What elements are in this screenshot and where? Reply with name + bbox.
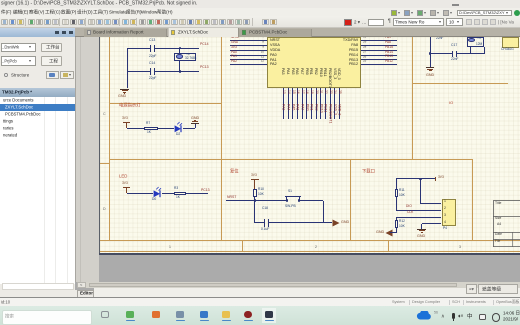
net label PB2/BOOT1 [328,104,332,123]
pin 29 [363,41,366,44]
section label LED [119,174,127,178]
pin name PB10 [319,68,323,77]
wire [361,54,397,57]
pin 8 [256,41,264,44]
pin 13 [282,90,285,94]
wire [287,88,290,119]
pin 27 [363,51,366,54]
net label PA4 [287,104,291,110]
ground [120,89,129,90]
ground [384,229,393,238]
pin 14 [287,90,290,94]
net label VDD_3 [338,104,342,115]
ground [426,67,435,68]
wire [396,177,435,180]
pin 18 [305,90,308,94]
net label PA9 [385,36,391,39]
net label PB1 [310,104,314,111]
pin name PB11 [324,68,328,77]
net label PA7 [301,104,305,110]
wire [361,58,397,61]
wire [230,58,268,61]
wire [127,47,150,50]
pin name PA2 [270,62,277,66]
section label 电源指示灯 [119,103,140,107]
wire [291,88,294,119]
pin 10 [256,51,264,54]
pin name VDDA [270,48,280,52]
pin 16 [296,90,299,94]
ic U3 CH340G [502,37,519,48]
section lines [221,37,222,241]
resistor R10 [253,189,257,197]
wire [324,88,327,119]
wire [471,52,485,55]
pin name PA6 [296,68,300,75]
wire [457,52,471,55]
net label DIO [406,205,412,208]
pin name PA7 [300,68,304,75]
wire [127,192,154,195]
wire [419,179,422,204]
pin 19 [310,90,313,94]
wire [305,88,308,119]
pin name PA8 [318,43,358,47]
pin 22 [324,90,327,94]
pin name PA3 [282,68,286,75]
net label 3V3 [231,46,237,49]
border frame [109,37,110,241]
wire [396,209,441,212]
wire [186,192,208,195]
wire [319,88,322,119]
wire [469,47,472,53]
wire [395,217,398,220]
power 3V3 [434,177,437,182]
pin 26 [363,56,366,59]
wire [395,197,398,210]
pin name PB1 [310,68,314,75]
wire [420,202,441,205]
crystal Y2 [174,53,196,61]
node [429,52,432,55]
wire [338,88,341,119]
zone C [103,112,106,116]
wire [253,201,256,223]
pin name VSS_3 [333,68,337,79]
wire [430,52,452,55]
wire [361,63,397,66]
pin name VSSA [270,43,280,47]
wire [155,47,199,50]
pin 17 [301,90,304,94]
switch S1 [288,190,292,193]
wire [429,37,432,67]
net label PA1 [231,55,237,58]
net label NRST [227,196,236,199]
wire [178,61,181,71]
canvas below sheet [99,255,520,283]
crystal Y3 [467,37,485,47]
net label NRST [231,36,240,39]
net label PC14 [200,43,209,46]
wire [226,199,287,202]
wire [333,88,336,119]
resistor R3 [174,187,178,190]
net label PB13 [385,55,393,58]
wire [315,88,318,119]
capacitor C17 [451,44,457,47]
net label PB11 [324,104,328,112]
pin 11 [256,56,264,59]
pin name PB15 [318,48,358,52]
wire [322,201,325,223]
node [419,178,422,181]
zone 3 [459,246,461,249]
resistor R7 [146,122,150,125]
wire [127,70,150,73]
sheet left edge [99,37,100,255]
node [179,70,182,73]
net label PB14 [385,51,393,54]
pin name PB2 [314,68,318,75]
pin name PA4 [286,68,290,75]
wire [178,48,181,53]
net label PB12 [385,60,393,63]
pin name TXD/PA9 [318,38,358,42]
pin name PB12 [318,62,358,66]
wire [361,44,397,47]
net label PB15 [385,46,393,49]
wire [269,221,324,224]
net label PA6 [296,104,300,110]
wire [395,179,398,189]
ground [417,229,426,230]
wire [361,39,397,42]
wire [361,49,397,52]
zone D [103,207,106,211]
wire [299,199,323,202]
net label PA3 [282,104,286,110]
led D2 [174,121,185,133]
resistor R11 [395,189,399,197]
net label PA2 [231,60,237,63]
pin name PA1 [270,58,277,62]
pin name PA0 [270,53,277,57]
wire [255,221,265,224]
connector P4 [442,199,456,226]
sheet bottom edge [99,253,520,255]
net label VSS_3 [333,104,337,115]
net label PA8 [385,41,391,44]
wire [301,88,304,119]
wire [162,192,174,195]
wire [230,44,268,47]
zone 2 [315,246,317,249]
pin name NRST [270,38,280,42]
wire [395,228,398,233]
wire [310,88,313,119]
pin 15 [291,90,294,94]
net label GND [231,41,238,44]
ground [194,123,197,128]
pin 20 [314,90,317,94]
net label PC13 [200,66,209,69]
capacitor C18 [262,207,268,210]
wire [230,49,268,52]
wire [483,47,486,53]
wire [230,63,268,66]
capacitor C13 [149,39,155,42]
node [179,47,182,50]
power 3V3 [251,174,257,177]
pin 7 [256,36,264,39]
pin 25 [363,60,366,63]
wire [183,127,195,130]
wire [282,88,285,119]
pin 23 [328,90,331,94]
net label PA0 [231,51,237,54]
power 3V3 [122,182,128,185]
mcu U2 [267,37,361,88]
wire [420,224,423,229]
net label CLK [407,211,413,214]
resistor R12 [395,220,399,228]
pin name PB14 [318,53,358,57]
pin 21 [319,90,322,94]
pin 25 [338,90,341,94]
net label PA5 [291,104,295,110]
power 3V3 [122,117,128,120]
title block [493,200,520,247]
pin 30 [363,36,366,39]
zone 1 [169,246,171,249]
wire [296,88,299,119]
pin name PB0 [305,68,309,75]
section label 复位 [230,169,239,173]
pin name VDD_3 [338,68,342,80]
led D0 [153,186,164,198]
net label PB0 [305,104,309,111]
pin name PB2/BOOT1 [328,68,332,88]
wire [155,70,199,73]
pin 24 [333,90,336,94]
wire [127,127,145,130]
wire [253,197,256,200]
wire [126,48,129,88]
section label 下载口 [362,169,375,173]
pin 12 [256,60,264,63]
net label PB10 [319,104,323,113]
wire [396,216,441,219]
pin 28 [363,46,366,49]
wire [324,221,332,224]
wire [230,39,268,42]
wire [230,54,268,57]
ground [332,219,341,228]
node [254,199,257,202]
net label PC13 [201,189,210,192]
wire [422,222,442,225]
section label IO [449,101,453,105]
capacitor C16 [436,37,443,40]
pin name PB13 [318,58,358,62]
net label PB2 [314,104,318,111]
wire [158,127,174,130]
sheet paper [100,37,520,253]
pin name PA5 [291,68,295,75]
capacitor C14 [149,62,155,65]
wire [329,88,332,119]
pin 9 [256,46,264,49]
